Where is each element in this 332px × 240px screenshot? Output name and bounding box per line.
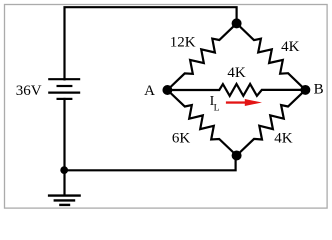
svg-text:A: A	[144, 83, 155, 99]
svg-text:4K: 4K	[281, 39, 300, 55]
resistor 4K middle	[167, 84, 305, 96]
node bottom	[232, 151, 242, 161]
svg-text:36V: 36V	[16, 83, 42, 99]
node B	[300, 85, 310, 95]
wire battery bottom to ground	[63, 99, 65, 195]
svg-text:6K: 6K	[172, 130, 191, 146]
resistor 12K	[167, 23, 236, 90]
svg-text:4K: 4K	[227, 65, 246, 81]
svg-text:12K: 12K	[170, 34, 196, 50]
resistor 4K top right	[237, 23, 306, 90]
node A	[162, 85, 172, 95]
ground	[48, 196, 81, 205]
node top	[232, 18, 242, 28]
wire bottom horizontal	[65, 156, 236, 171]
battery 36V	[48, 79, 80, 99]
svg-text:B: B	[314, 82, 324, 98]
wire top loop	[65, 7, 237, 79]
svg-text:4K: 4K	[274, 131, 293, 147]
resistor 4K bottom right	[237, 90, 306, 156]
resistor 6K	[167, 90, 236, 156]
junction node	[60, 166, 68, 174]
current arrow IL	[226, 99, 262, 106]
